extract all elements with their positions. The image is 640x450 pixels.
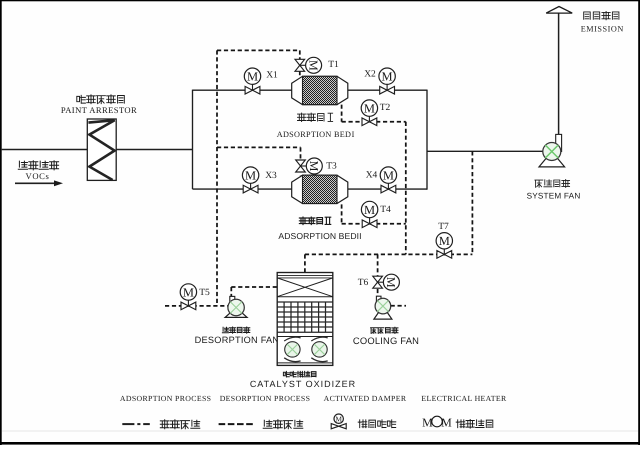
oxidizer mixing section (X baffle) [277, 278, 333, 297]
svg-text:ADSORPTION BED: ADSORPTION BED [277, 130, 351, 139]
svg-text:X1: X1 [266, 71, 278, 81]
emission arrow [546, 7, 572, 14]
svg-text:T2: T2 [380, 103, 391, 113]
wire: dashed loop to bed II valve T3 [217, 146, 301, 148]
label: cooling fan [371, 327, 398, 333]
label: adsorption bed II [299, 217, 331, 224]
label: system fan [535, 179, 570, 187]
wire: dashed drop through T3 into bed II top [300, 147, 302, 175]
svg-text:CATALYST OXIDIZER: CATALYST OXIDIZER [250, 379, 356, 389]
svg-text:DESORPTION PROCESS: DESORPTION PROCESS [220, 394, 311, 403]
svg-text:DESORPTION FAN: DESORPTION FAN [195, 335, 280, 345]
valve X4 (activated damper) [387, 183, 389, 189]
label: paint arrestor [77, 95, 125, 104]
svg-text:T6: T6 [358, 278, 369, 288]
svg-text:ELECTRICAL HEATER: ELECTRICAL HEATER [421, 394, 507, 403]
svg-text:PAINT ARRESTOR: PAINT ARRESTOR [61, 105, 137, 115]
svg-text:ACTIVATED DAMPER: ACTIVATED DAMPER [324, 394, 407, 403]
wire: bed I outlet line through valve X2 [348, 89, 427, 91]
svg-text:T7: T7 [438, 222, 449, 232]
wire: dashed line through valve T2 [342, 121, 406, 123]
wire: collector vertical header to system fan [426, 90, 428, 190]
catalyst oxidizer vessel [277, 273, 333, 366]
svg-text:X3: X3 [265, 171, 277, 181]
adsorption bed I vessel [292, 76, 348, 104]
svg-text:M: M [247, 70, 258, 84]
cooling fan [374, 306, 392, 319]
wire: main inlet line from left border to paint arrestor [2, 149, 88, 151]
label: emission [584, 11, 619, 19]
wire: branch vertical header [192, 90, 194, 190]
wire: dashed line through valve T4 [342, 223, 406, 225]
oxidizer burner fan 1 [284, 337, 300, 341]
valve T7 (activated damper) [443, 247, 445, 254]
valve X1 (activated damper) [252, 84, 254, 90]
svg-text:T3: T3 [326, 162, 337, 172]
svg-text:X4: X4 [366, 171, 378, 181]
svg-text:T1: T1 [328, 60, 339, 70]
wire: main line from paint arrestor to branch point [116, 149, 192, 151]
svg-text:M: M [383, 169, 394, 183]
svg-text:T4: T4 [380, 205, 391, 215]
wire: dashed cooling fan inlet stub [391, 305, 406, 307]
wire: dashed drop to desorption fan port [230, 287, 232, 296]
svg-text:M: M [245, 169, 256, 183]
oxidizer catalyst grid section [277, 302, 333, 332]
svg-text:EMISSION: EMISSION [581, 24, 624, 33]
wire: dashed riser from system fan feed [471, 151, 473, 254]
wire: dashed drop through valve T6 to cooling fan [377, 254, 379, 296]
wire: bed II inlet line through valve X3 [193, 188, 292, 190]
valve T3 (activated damper) [301, 165, 309, 167]
valve X2 (activated damper) [386, 84, 388, 90]
valve T1 (activated damper) [300, 64, 308, 66]
system fan [539, 152, 565, 167]
svg-text:ADSORPTION BEDII: ADSORPTION BEDII [278, 231, 361, 241]
label: VOCs inlet [18, 161, 58, 170]
wire: dashed line desorption fan to oxidizer [231, 286, 277, 288]
svg-text:VOCs: VOCs [26, 171, 50, 181]
svg-text:X2: X2 [364, 70, 376, 80]
label: desorption fan [222, 327, 249, 333]
wire: dashed drop from bed II bottom [341, 204, 343, 223]
svg-text:ADSORPTION PROCESS: ADSORPTION PROCESS [120, 394, 211, 403]
valve T6 (activated damper) [378, 281, 386, 283]
wire: dashed top loop to bed I valve T1 [217, 49, 300, 51]
svg-text:M: M [335, 414, 342, 423]
wire: bed I inlet line through valve X1 [193, 89, 292, 91]
svg-text:M: M [307, 161, 321, 172]
adsorption bed II vessel [292, 175, 348, 203]
svg-text:COOLING FAN: COOLING FAN [353, 335, 419, 346]
valve T4 (activated damper) [369, 216, 371, 224]
svg-text:M: M [306, 60, 320, 71]
valve T2 (activated damper) [368, 116, 370, 122]
valve T5 (activated damper) [187, 298, 189, 306]
wire: dashed suction line through valve T5 [165, 305, 228, 307]
svg-text:M: M [382, 70, 393, 84]
paint arrestor (filter) vessel [87, 119, 116, 180]
label: adsorption bed I [298, 113, 334, 121]
wire: dashed manifold line through valve T7 [305, 253, 473, 255]
svg-text:T5: T5 [199, 288, 210, 298]
svg-text:SYSTEM FAN: SYSTEM FAN [527, 191, 581, 200]
oxidizer burner fan 2 [311, 337, 327, 341]
wire: system fan feed line [427, 150, 543, 152]
svg-text:M: M [183, 285, 194, 299]
inlet flow arrow [15, 182, 55, 184]
wire: bed II outlet line through valve X4 [348, 188, 427, 190]
label: catalyst oxidizer [283, 371, 316, 377]
svg-text:M: M [364, 102, 375, 116]
wire: emission stack line [558, 13, 560, 136]
wire: dashed drop through T1 into bed I top [299, 50, 301, 76]
svg-text:I: I [352, 130, 355, 139]
wire: dashed desorption header vertical (left) [216, 50, 218, 306]
svg-text:M: M [439, 234, 450, 248]
desorption fan [225, 308, 247, 318]
svg-text:M: M [441, 416, 452, 430]
wire: dashed drop into catalyst oxidizer top [304, 254, 306, 272]
svg-text:M: M [364, 203, 375, 217]
wire: dashed right header vertical [405, 122, 407, 255]
wire: dashed drop from bed I bottom [341, 105, 343, 122]
svg-text:M: M [384, 277, 398, 288]
valve X3 (activated damper) [250, 183, 252, 189]
